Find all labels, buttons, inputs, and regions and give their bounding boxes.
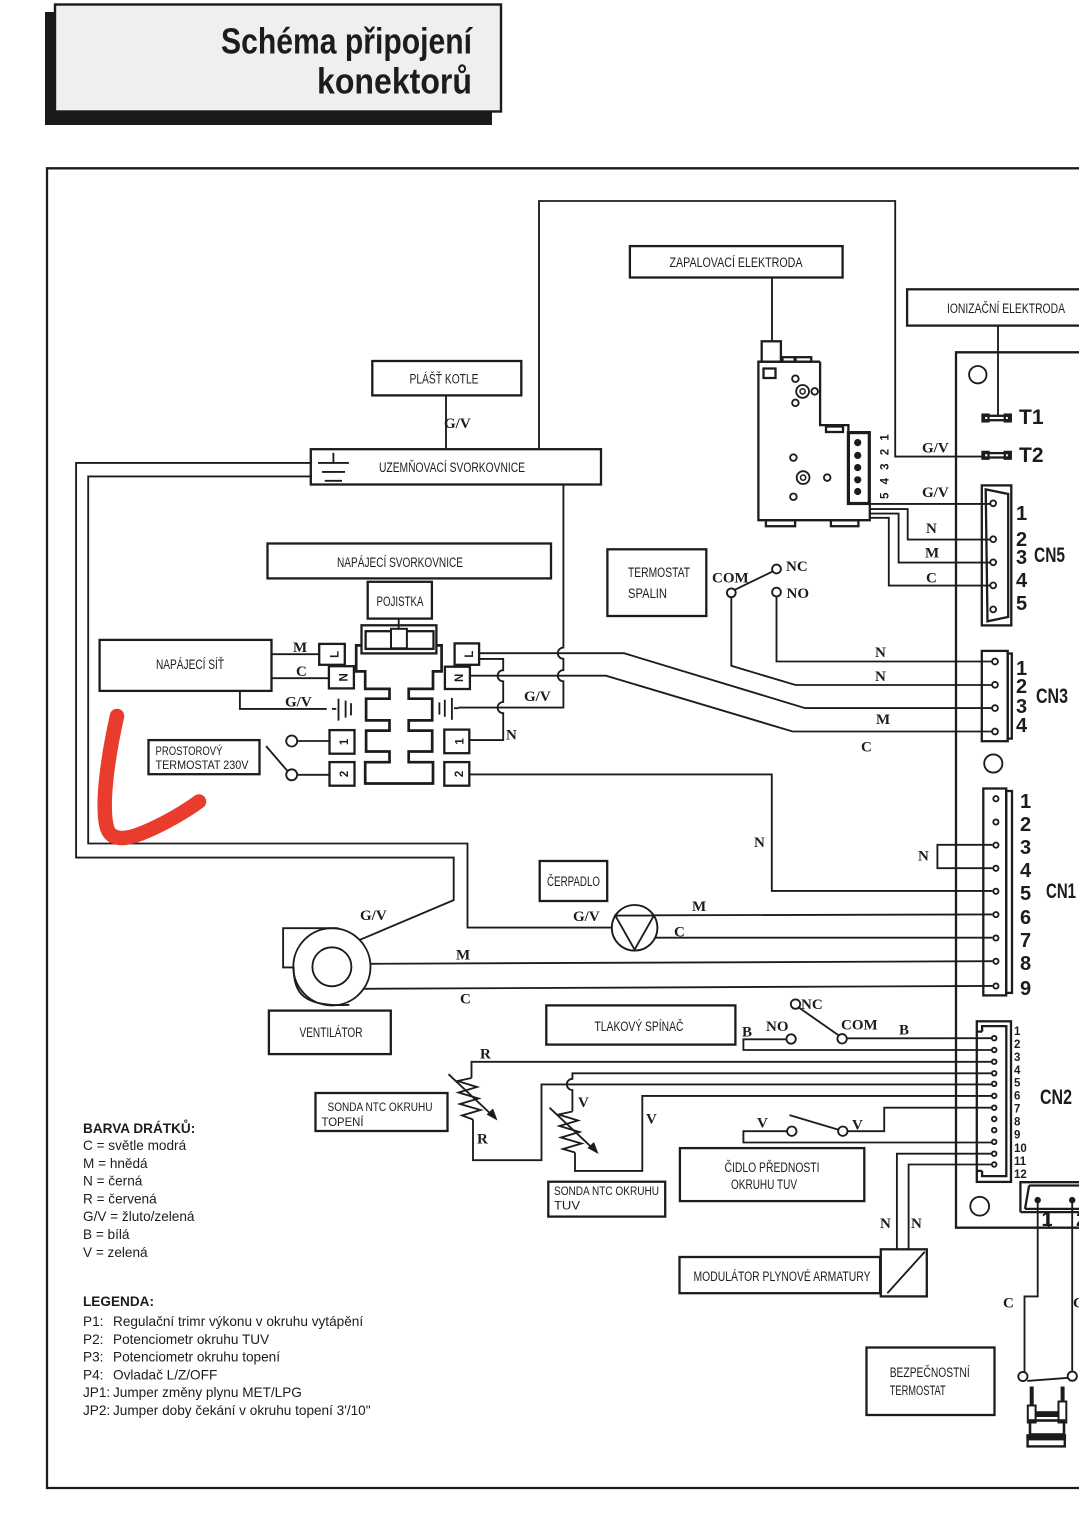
svg-text:C: C	[296, 664, 307, 680]
svg-text:TERMOSTAT: TERMOSTAT	[890, 1383, 946, 1399]
wire plast kotle G/V to uzemnovaci	[445, 395, 447, 449]
svg-text:N: N	[926, 521, 937, 537]
red hand-drawn check mark	[105, 716, 199, 838]
svg-text:M: M	[876, 712, 890, 728]
svg-text:C: C	[926, 571, 937, 587]
svg-text:LEGENDA:: LEGENDA:	[83, 1294, 154, 1309]
bottom connector pins	[1035, 1197, 1041, 1203]
svg-text:G/V: G/V	[524, 689, 551, 705]
svg-text:N: N	[506, 728, 517, 744]
svg-text:7: 7	[1020, 930, 1031, 952]
fan symbol	[283, 928, 349, 1005]
svg-text:B: B	[899, 1023, 909, 1039]
svg-text:POJISTKA: POJISTKA	[377, 594, 424, 610]
svg-text:G/V: G/V	[360, 908, 387, 924]
svg-text:5: 5	[1014, 1078, 1021, 1090]
bottom connector	[1020, 1182, 1079, 1212]
svg-text:P1:: P1:	[83, 1314, 103, 1329]
svg-text:T2: T2	[1019, 444, 1044, 467]
svg-text:1: 1	[1020, 791, 1031, 813]
svg-text:Jumper doby čekání v okruhu to: Jumper doby čekání v okruhu topení 3'/10…	[113, 1403, 371, 1418]
terminal 2 box right	[444, 762, 469, 786]
svg-text:4: 4	[1020, 860, 1032, 882]
svg-text:3: 3	[1016, 547, 1027, 569]
terminal 2 box left	[330, 762, 355, 786]
svg-text:UZEMŇOVACÍ SVORKOVNICE: UZEMŇOVACÍ SVORKOVNICE	[379, 459, 525, 476]
box NAPAJECI SIT	[100, 640, 272, 691]
svg-text:8: 8	[1020, 953, 1031, 975]
wire napajeci sit G/V to ground	[240, 691, 327, 709]
ground symbol right of comb	[439, 698, 458, 720]
wire napajeci sit C to N box	[272, 677, 329, 679]
svg-text:M: M	[925, 546, 939, 562]
valve wires to CN5	[870, 503, 991, 505]
pump symbol	[612, 905, 658, 951]
svg-text:C: C	[1073, 1296, 1079, 1312]
box POJISTKA	[368, 582, 432, 619]
svg-text:T1: T1	[1019, 406, 1044, 429]
svg-text:Potenciometr okruhu TUV: Potenciometr okruhu TUV	[113, 1332, 269, 1347]
svg-text:G/V: G/V	[922, 485, 949, 501]
ignition bottom tabs	[766, 520, 795, 526]
connector CN2	[977, 1021, 1011, 1182]
svg-text:1: 1	[455, 738, 467, 745]
svg-text:C: C	[861, 740, 872, 756]
PCB mounting hole bottom	[970, 1197, 989, 1216]
svg-text:ČERPADLO: ČERPADLO	[547, 873, 600, 890]
svg-text:6: 6	[1020, 907, 1031, 929]
wire NTC tuv bottom V to CN2 pin6	[575, 1096, 992, 1171]
svg-text:3: 3	[1014, 1052, 1020, 1064]
safety thermostat bulb symbol	[1026, 1387, 1066, 1447]
svg-text:M: M	[293, 640, 307, 656]
svg-text:4: 4	[1014, 1065, 1021, 1077]
svg-text:SPALIN: SPALIN	[628, 586, 667, 602]
svg-text:1: 1	[1014, 1026, 1021, 1038]
svg-text:2: 2	[339, 771, 351, 777]
wire spalin COM to CN3 pin2	[731, 597, 992, 685]
svg-text:C: C	[460, 992, 471, 1008]
svg-text:L: L	[330, 651, 342, 658]
tlakovy switch NC circle	[791, 999, 800, 1008]
svg-text:L: L	[464, 651, 476, 658]
svg-text:NAPÁJECÍ SÍŤ: NAPÁJECÍ SÍŤ	[156, 656, 224, 673]
terminal L box left	[319, 644, 345, 665]
T2 terminal bar	[983, 452, 1011, 459]
svg-text:BARVA DRÁTKŮ:: BARVA DRÁTKŮ:	[83, 1120, 195, 1136]
svg-text:1: 1	[339, 738, 351, 745]
bottom connector divider	[1048, 1213, 1050, 1228]
svg-text:V = zelená: V = zelená	[83, 1245, 148, 1260]
svg-text:N: N	[454, 674, 466, 682]
V priority switch lever	[790, 1115, 839, 1130]
svg-text:N: N	[339, 673, 351, 681]
wire NTC topeni top R to CN2 pin3	[472, 1062, 992, 1078]
svg-text:SONDA NTC OKRUHU: SONDA NTC OKRUHU	[328, 1100, 433, 1114]
svg-text:NC: NC	[801, 997, 823, 1013]
svg-text:1: 1	[1042, 1209, 1053, 1231]
NTC tuv arrow	[550, 1108, 596, 1151]
svg-text:TERMOSTAT: TERMOSTAT	[628, 565, 690, 581]
box UZEMNOVACI SVORKOVNICE	[311, 449, 601, 484]
svg-text:V: V	[646, 1112, 657, 1128]
svg-text:COM: COM	[712, 571, 749, 587]
svg-text:P3:: P3:	[83, 1350, 103, 1365]
svg-text:P4:: P4:	[83, 1367, 103, 1382]
svg-text:M: M	[456, 948, 470, 964]
svg-text:NC: NC	[786, 559, 808, 575]
terminal L box right	[455, 643, 480, 664]
svg-text:3: 3	[1020, 837, 1031, 859]
terminal 1 box left	[330, 730, 355, 754]
box SONDA NTC OKRUHU TOPENI	[316, 1093, 448, 1131]
tlakovy switch lever	[799, 1008, 839, 1036]
title block	[55, 5, 501, 112]
NTC topeni arrow	[449, 1074, 495, 1117]
svg-text:VENTILÁTOR: VENTILÁTOR	[300, 1024, 363, 1041]
fuse center element	[391, 629, 407, 649]
title block shadow	[45, 12, 492, 125]
wire zapalovaci elektroda to valve	[771, 278, 773, 342]
wire tlakovy COM to CN2 pin1 (B)	[847, 1037, 992, 1039]
svg-text:SONDA NTC OKRUHU: SONDA NTC OKRUHU	[554, 1184, 659, 1198]
wire top loop uzemnovaci to T2	[539, 201, 983, 457]
box TERMOSTAT SPALIN	[607, 549, 706, 616]
svg-text:COM: COM	[841, 1018, 878, 1034]
svg-text:R: R	[480, 1047, 491, 1063]
svg-text:N: N	[875, 669, 886, 685]
wire CN1 N jumper pins 3-4	[937, 845, 992, 868]
svg-text:N: N	[875, 645, 886, 661]
svg-text:PLÁŠŤ KOTLE: PLÁŠŤ KOTLE	[410, 371, 479, 388]
svg-text:N: N	[911, 1216, 922, 1232]
ignition boss upper	[796, 385, 809, 398]
box IONIZACNI ELEKTRODA	[907, 289, 1079, 325]
svg-text:G/V = žluto/zelená: G/V = žluto/zelená	[83, 1209, 195, 1224]
NTC topeni resistor zigzag	[458, 1078, 481, 1120]
svg-text:NO: NO	[766, 1019, 789, 1035]
svg-text:C: C	[1003, 1296, 1014, 1312]
room thermostat switch lever	[266, 746, 287, 771]
NTC tuv resistor zigzag	[559, 1112, 582, 1153]
svg-text:M: M	[692, 899, 706, 915]
svg-text:2: 2	[1014, 1039, 1020, 1051]
wire napajeci sit M to L box	[272, 653, 320, 655]
svg-text:10: 10	[1014, 1143, 1027, 1155]
svg-text:V: V	[852, 1118, 863, 1134]
svg-text:4: 4	[1016, 570, 1028, 592]
PCB mounting hole middle	[984, 754, 1002, 772]
svg-text:CN5: CN5	[1034, 544, 1065, 567]
svg-text:ČIDLO PŘEDNOSTI: ČIDLO PŘEDNOSTI	[725, 1159, 820, 1176]
svg-text:V: V	[578, 1095, 589, 1111]
terminal 1 box right	[444, 730, 469, 754]
svg-text:12: 12	[1014, 1169, 1027, 1181]
wire uzemnovaci bottom to comb ground G/V (with hops)	[459, 485, 564, 708]
wire fan C to CN1 pin9	[364, 986, 993, 989]
wire room thermostat switch to 2 box	[297, 774, 329, 776]
valve connector block	[848, 433, 869, 504]
svg-text:4: 4	[1016, 715, 1028, 737]
wire right L box to CN3 pin3 (M)	[479, 653, 992, 708]
svg-text:P2:: P2:	[83, 1332, 103, 1347]
wire pump M to CN1 pin6	[654, 913, 993, 916]
wire V switch left to CN2 pin10	[743, 1131, 991, 1142]
wire CN2 pin12 N to modulator	[909, 1165, 992, 1250]
svg-text:G/V: G/V	[285, 695, 312, 711]
tlakovy switch COM circle	[837, 1034, 846, 1043]
safety thermostat contact circles	[1018, 1372, 1027, 1381]
box CIDLO PREDNOSTI OKRUHU TUV	[680, 1148, 864, 1201]
ignition screw holes	[792, 375, 799, 382]
svg-text:Jumper změny plynu MET/LPG: Jumper změny plynu MET/LPG	[113, 1385, 302, 1400]
wire right 2 box to CN1 pin5 (N)	[469, 774, 992, 891]
wire NTC topeni bottom R to CN2 pin5	[473, 1084, 992, 1160]
connector CN1	[983, 789, 1006, 996]
svg-text:B: B	[742, 1025, 752, 1041]
wire uzemnovaci left B to inner rail	[88, 476, 612, 927]
wire uzemnovaci left A to outer rail	[76, 463, 454, 940]
svg-text:TOPENÍ: TOPENÍ	[322, 1114, 365, 1129]
svg-text:N = černá: N = černá	[83, 1174, 143, 1189]
T1 terminal bar	[983, 415, 1011, 422]
svg-text:Ovladač L/Z/OFF: Ovladač L/Z/OFF	[113, 1367, 217, 1382]
svg-text:TLAKOVÝ SPÍNAČ: TLAKOVÝ SPÍNAČ	[595, 1018, 684, 1035]
svg-text:konektorů: konektorů	[317, 61, 472, 102]
svg-text:N: N	[880, 1216, 891, 1232]
svg-text:R: R	[477, 1132, 488, 1148]
svg-text:5: 5	[1016, 593, 1027, 615]
terminal N box right	[445, 667, 470, 689]
svg-text:NAPÁJECÍ SVORKOVNICE: NAPÁJECÍ SVORKOVNICE	[337, 554, 463, 571]
svg-text:NO: NO	[787, 586, 810, 602]
connector CN5	[982, 485, 1012, 625]
terminal comb block	[356, 645, 441, 783]
svg-text:JP2:: JP2:	[83, 1403, 110, 1418]
box PLAST KOTLE	[372, 361, 521, 395]
svg-text:CN3: CN3	[1036, 685, 1068, 708]
svg-text:1: 1	[1016, 503, 1027, 525]
spalin switch lever	[735, 571, 773, 590]
svg-text:G/V: G/V	[573, 909, 600, 925]
tlakovy switch NO circle	[786, 1034, 795, 1043]
spalin switch COM circle	[727, 588, 736, 597]
PCB mounting hole top	[969, 366, 986, 383]
ignition top terminal	[762, 341, 781, 361]
wire ionizacni elektroda to T1	[997, 326, 999, 416]
PCB board outline	[956, 352, 1079, 1227]
svg-text:IONIZAČNÍ ELEKTRODA: IONIZAČNÍ ELEKTRODA	[947, 300, 1065, 317]
svg-text:TERMOSTAT 230V: TERMOSTAT 230V	[156, 758, 250, 772]
wire bottom connector pin2 to safety thermostat	[1071, 1203, 1073, 1372]
room thermostat switch circles	[286, 736, 297, 747]
ignition unit body	[758, 362, 869, 521]
box MODULATOR PLYNOVE ARMATURY	[680, 1257, 881, 1293]
connector CN3	[982, 651, 1008, 741]
wire CN2 pin11 N to modulator	[897, 1154, 992, 1250]
svg-text:2: 2	[454, 771, 466, 777]
svg-text:M = hnědá: M = hnědá	[83, 1156, 148, 1171]
svg-text:2: 2	[1020, 814, 1031, 836]
svg-text:BEZPEČNOSTNÍ: BEZPEČNOSTNÍ	[890, 1364, 970, 1381]
wire bottom connector pin1 to safety thermostat (C)	[1025, 1203, 1038, 1372]
svg-text:11: 11	[1014, 1156, 1027, 1168]
CN2 pin numbers	[1014, 1026, 1027, 1181]
svg-text:V: V	[757, 1116, 768, 1132]
modulator symbol	[881, 1249, 927, 1296]
ground symbol left of comb	[332, 699, 351, 721]
svg-text:N: N	[918, 849, 929, 865]
ignition step tab	[826, 427, 843, 433]
box TLAKOVY SPINAC	[546, 1005, 735, 1044]
spalin switch NO circle	[772, 588, 781, 597]
svg-text:Regulační trimr výkonu v okruh: Regulační trimr výkonu v okruhu vytápění	[113, 1314, 363, 1329]
wire tlakovy NO jog to CN2 pin2 (B)	[743, 1039, 991, 1050]
svg-text:Schéma připojení: Schéma připojení	[221, 21, 473, 62]
ignition notch detail	[764, 369, 776, 379]
box NAPAJECI SVORKOVNICE	[268, 544, 552, 579]
svg-text:C = světle modrá: C = světle modrá	[83, 1138, 187, 1153]
wire room thermostat switch to 1 box	[297, 740, 329, 742]
V priority switch left circle	[787, 1127, 796, 1136]
box CERPADLO	[540, 861, 608, 901]
svg-text:CN2: CN2	[1040, 1086, 1072, 1109]
svg-text:MODULÁTOR PLYNOVÉ ARMATURY: MODULÁTOR PLYNOVÉ ARMATURY	[694, 1268, 871, 1285]
svg-text:6: 6	[1014, 1091, 1020, 1103]
svg-text:N: N	[754, 835, 765, 851]
svg-text:7: 7	[1014, 1104, 1020, 1116]
terminal N box left	[329, 666, 354, 688]
svg-text:9: 9	[1020, 978, 1031, 1000]
svg-text:9: 9	[1014, 1130, 1020, 1142]
wire right N box to CN3 pin4 (C)	[470, 676, 992, 732]
svg-text:PROSTOROVÝ: PROSTOROVÝ	[156, 743, 223, 758]
svg-text:5: 5	[1020, 883, 1031, 905]
svg-text:Potenciometr okruhu topení: Potenciometr okruhu topení	[113, 1350, 280, 1365]
svg-text:G/V: G/V	[922, 441, 949, 457]
valve connector pins	[854, 439, 861, 446]
wire spalin NO to CN3 pin1	[777, 597, 993, 662]
svg-text:TUV: TUV	[554, 1199, 581, 1213]
svg-text:2: 2	[1016, 676, 1027, 698]
wire NTC tuv top V to CN2 pin4 (hop over R wire)	[567, 1073, 992, 1111]
box SONDA NTC OKRUHU TUV	[548, 1182, 665, 1217]
svg-text:C: C	[674, 925, 685, 941]
box PROSTOROVY TERMOSTAT 230V	[149, 740, 260, 774]
V priority switch right circle	[838, 1127, 847, 1136]
box ZAPALOVACI ELEKTRODA	[630, 246, 843, 277]
svg-text:8: 8	[1014, 1117, 1021, 1129]
svg-text:B = bílá: B = bílá	[83, 1227, 130, 1242]
svg-text:JP1:: JP1:	[83, 1385, 110, 1400]
ignition top tabs	[783, 357, 795, 362]
svg-text:ZAPALOVACÍ ELEKTRODA: ZAPALOVACÍ ELEKTRODA	[670, 254, 803, 271]
svg-text:CN1: CN1	[1046, 880, 1076, 903]
wire pump C to CN1 pin7	[655, 937, 992, 939]
pojistka lead	[398, 619, 400, 637]
ignition boss lower	[797, 471, 810, 484]
wire V switch right to CN2 pin7	[848, 1108, 992, 1132]
ground symbol in uzemnovaci	[318, 453, 349, 481]
svg-text:R = červená: R = červená	[83, 1191, 157, 1206]
wire right L box down to right 1 box (with hops)	[469, 659, 503, 740]
svg-text:G/V: G/V	[444, 416, 471, 432]
svg-text:5 4 3 2 1: 5 4 3 2 1	[880, 432, 892, 499]
spalin switch NC circle	[772, 565, 781, 574]
safety thermostat contact bar	[1027, 1378, 1068, 1381]
fuse assembly outer	[362, 625, 437, 653]
svg-text:OKRUHU TUV: OKRUHU TUV	[731, 1177, 797, 1193]
box VENTILATOR	[269, 1011, 391, 1055]
box BEZPECNOSTNI TERMOSTAT	[867, 1348, 995, 1416]
wire fan M to CN1 pin8	[370, 961, 992, 964]
